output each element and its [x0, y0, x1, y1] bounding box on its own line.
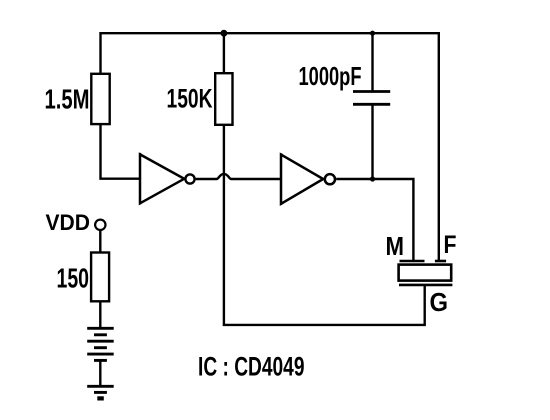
svg-text:VDD: VDD: [46, 210, 91, 235]
svg-text:1.5M: 1.5M: [45, 84, 90, 115]
svg-text:150: 150: [57, 263, 90, 294]
svg-text:IC : CD4049: IC : CD4049: [198, 352, 305, 382]
svg-text:1000pF: 1000pF: [299, 61, 362, 91]
svg-text:G: G: [430, 287, 449, 317]
svg-text:150K: 150K: [167, 84, 213, 114]
svg-text:F: F: [444, 232, 457, 259]
svg-text:M: M: [386, 231, 405, 261]
